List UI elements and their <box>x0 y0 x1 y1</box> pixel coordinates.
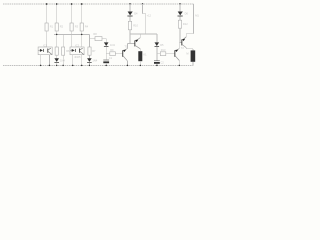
svg-text:R6: R6 <box>66 49 70 53</box>
wire Q1 emitter to node E <box>139 34 141 38</box>
svg-text:1N4: 1N4 <box>60 59 65 63</box>
wire R12 to Q2 base <box>179 28 181 42</box>
svg-text:R10: R10 <box>133 24 138 28</box>
wire Q4 collector to ground <box>178 61 180 66</box>
wire R1 to opto U1 <box>46 31 48 47</box>
node A junction dot <box>56 34 58 36</box>
opto-coupler U2 <box>70 43 84 59</box>
svg-text:R4: R4 <box>85 25 89 29</box>
wire R1 drop <box>46 4 48 23</box>
svg-text:1N4: 1N4 <box>110 43 115 47</box>
resistor R3 <box>70 23 79 31</box>
wire R13 to Q4 base <box>166 53 175 55</box>
svg-text:T2: T2 <box>181 46 185 50</box>
capacitor C2 <box>154 60 164 64</box>
wire V+ jog to node E <box>143 4 146 34</box>
capacitor C1 <box>103 56 112 63</box>
wire V+ to D4 <box>129 4 131 11</box>
node B junction dot <box>81 34 83 36</box>
svg-text:R2: R2 <box>60 25 64 29</box>
svg-text:D6: D6 <box>185 12 189 16</box>
wire R7 to D2 <box>88 55 90 58</box>
wire Q3 collector to ground <box>126 61 128 66</box>
svg-text:R8: R8 <box>93 32 97 36</box>
svg-text:D4: D4 <box>134 12 138 16</box>
svg-text:R12: R12 <box>183 22 188 26</box>
ground rail bottom <box>3 64 193 66</box>
wire node B to R8 <box>90 38 96 40</box>
diode D3 <box>104 42 115 47</box>
wire R3 to opto U2 <box>71 31 73 47</box>
svg-text:R13: R13 <box>161 48 166 52</box>
component X1 dark body <box>138 51 147 61</box>
wire R6 to ground <box>62 55 64 65</box>
power rail top <box>3 3 194 5</box>
wire R4 drop <box>81 4 83 23</box>
wire R8 to D3 <box>102 39 106 43</box>
wire D2 to ground <box>88 63 90 66</box>
wire D5 to node F <box>157 47 160 61</box>
wire node E corner to D5 <box>156 34 158 42</box>
wire R9 to Q3 base <box>115 53 122 55</box>
resistor R5 <box>55 47 58 55</box>
svg-text:C1: C1 <box>109 56 113 60</box>
svg-text:R9: R9 <box>110 48 114 52</box>
transistor Q2 <box>181 37 186 48</box>
resistor R2 <box>55 23 64 31</box>
resistor R9 <box>110 48 116 55</box>
wire C1 to ground <box>105 63 107 65</box>
svg-text:IC2: IC2 <box>75 43 80 47</box>
wire R10 to node E rail <box>130 30 157 44</box>
svg-text:M: M <box>186 51 188 55</box>
diode D4 <box>127 12 138 17</box>
diode D1 <box>54 58 65 62</box>
diode D5 <box>155 42 165 47</box>
diode D6 <box>178 12 189 17</box>
wire Q4 emitter up to Q2 base node <box>178 42 180 48</box>
wire R2 to node A <box>54 31 90 47</box>
resistor R8 <box>93 32 102 40</box>
svg-text:R1: R1 <box>50 25 54 29</box>
svg-text:D5: D5 <box>160 43 164 47</box>
resistor R12 <box>178 20 188 28</box>
wire Q3 emitter up to node D <box>127 43 130 48</box>
resistor R13 <box>160 48 166 55</box>
wire D3 to node C <box>106 47 110 60</box>
opto U1 pin wires to ground <box>41 55 50 66</box>
transistor Q3 <box>122 49 127 61</box>
svg-text:IC1: IC1 <box>43 43 48 47</box>
resistor R10 <box>128 21 138 30</box>
svg-text:R3: R3 <box>75 25 79 29</box>
wire Q2 emitter to V+ right edge <box>186 4 193 37</box>
resistor R1 <box>45 23 54 31</box>
component X2 dark body <box>186 50 195 61</box>
wire R4 to node B <box>82 31 90 47</box>
wire Q2 collector to X2 <box>186 48 193 51</box>
svg-text:M1: M1 <box>195 14 199 18</box>
wire D1 to ground <box>56 63 58 66</box>
wire Q1 collector to X1 <box>139 49 141 51</box>
transistor Q1 <box>134 38 140 49</box>
wire C2 to ground <box>156 64 158 66</box>
wire V+ to D6 <box>179 4 181 11</box>
svg-text:R7: R7 <box>92 49 96 53</box>
wire X1 to ground <box>139 61 141 65</box>
wire R5 to D1 <box>56 55 58 58</box>
svg-text:4N25: 4N25 <box>74 55 81 59</box>
svg-text:+12: +12 <box>147 13 152 17</box>
resistor R7 <box>88 47 96 55</box>
svg-text:K1: K1 <box>143 52 147 56</box>
opto U2 pin wires to ground <box>73 55 82 66</box>
wire X2 to ground corner <box>192 62 194 66</box>
resistor R4 <box>80 23 89 31</box>
svg-text:C2: C2 <box>160 60 164 64</box>
svg-text:1N4: 1N4 <box>92 59 97 63</box>
opto-coupler U1 <box>38 43 52 54</box>
wire R3 drop <box>71 4 73 23</box>
transistor Q4 <box>174 46 184 61</box>
junction dots power rail <box>46 3 181 5</box>
wire R2 drop <box>56 4 58 23</box>
wire D4 to R10 <box>129 17 131 22</box>
resistor R6 <box>62 47 71 55</box>
diode D2 <box>87 58 98 62</box>
wire D6 to R12 <box>179 17 181 21</box>
junction dots ground rail <box>40 65 180 67</box>
